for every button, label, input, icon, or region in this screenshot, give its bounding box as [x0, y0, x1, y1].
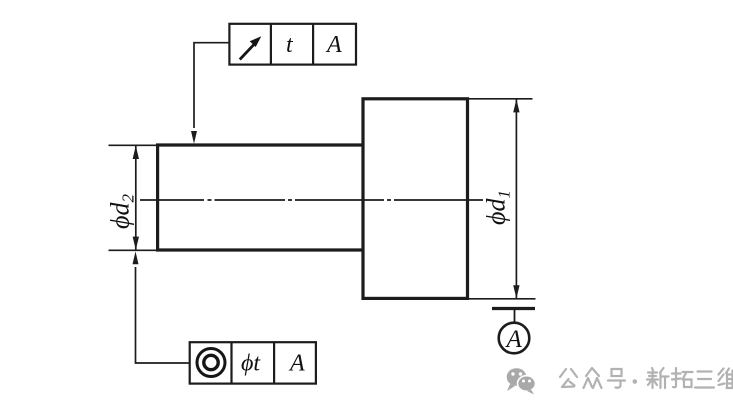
char xin	[647, 368, 669, 388]
dimension line phi-d2	[135, 145, 137, 250]
leader line from bottom feature control frame	[136, 267, 190, 363]
arrowhead d2 top	[133, 146, 139, 159]
extension line top (d1)	[467, 98, 533, 100]
shaft small-diameter section outline	[156, 143, 363, 251]
svg-text:ϕt: ϕt	[241, 351, 261, 377]
svg-text:A: A	[288, 351, 305, 377]
datum connector line	[514, 309, 516, 324]
leader arrowhead (points to small shaft top surface)	[191, 131, 197, 144]
char gong	[560, 369, 577, 387]
concentricity symbol (concentric circles)	[197, 349, 225, 377]
arrowhead d1 bottom	[513, 285, 519, 298]
extension line bottom (d2)	[109, 249, 158, 251]
feature control frame top (runout | t | A)	[229, 24, 356, 65]
middle dot	[633, 379, 638, 384]
centerline (axis)	[140, 199, 483, 201]
datum circle	[499, 323, 530, 354]
circular runout symbol (arrow)	[240, 43, 256, 60]
char zhong	[584, 368, 602, 388]
feature control frame bottom (concentricity | phi t | A)	[190, 342, 316, 383]
watermark wechat icon	[507, 368, 536, 394]
watermark text: gong-zhong-hao dot xin-tuo-san-wei	[560, 368, 733, 388]
arrowhead d1 top	[513, 99, 519, 112]
dimension line phi-d1	[515, 99, 517, 299]
leader line from top feature control frame	[194, 43, 229, 128]
svg-text:A: A	[505, 326, 523, 353]
shaft large-diameter section outline	[363, 99, 468, 299]
datum feature base line	[492, 307, 535, 310]
svg-text:A: A	[325, 32, 342, 58]
char san	[695, 372, 714, 388]
arrowhead d2 bottom	[133, 237, 139, 250]
char hao	[608, 369, 625, 388]
leader arrowhead (points up to extension line)	[133, 251, 139, 264]
extension line bottom (d1)	[467, 298, 536, 300]
extension line top (d2)	[109, 144, 158, 146]
char tuo	[672, 368, 693, 387]
char wei	[719, 369, 733, 389]
